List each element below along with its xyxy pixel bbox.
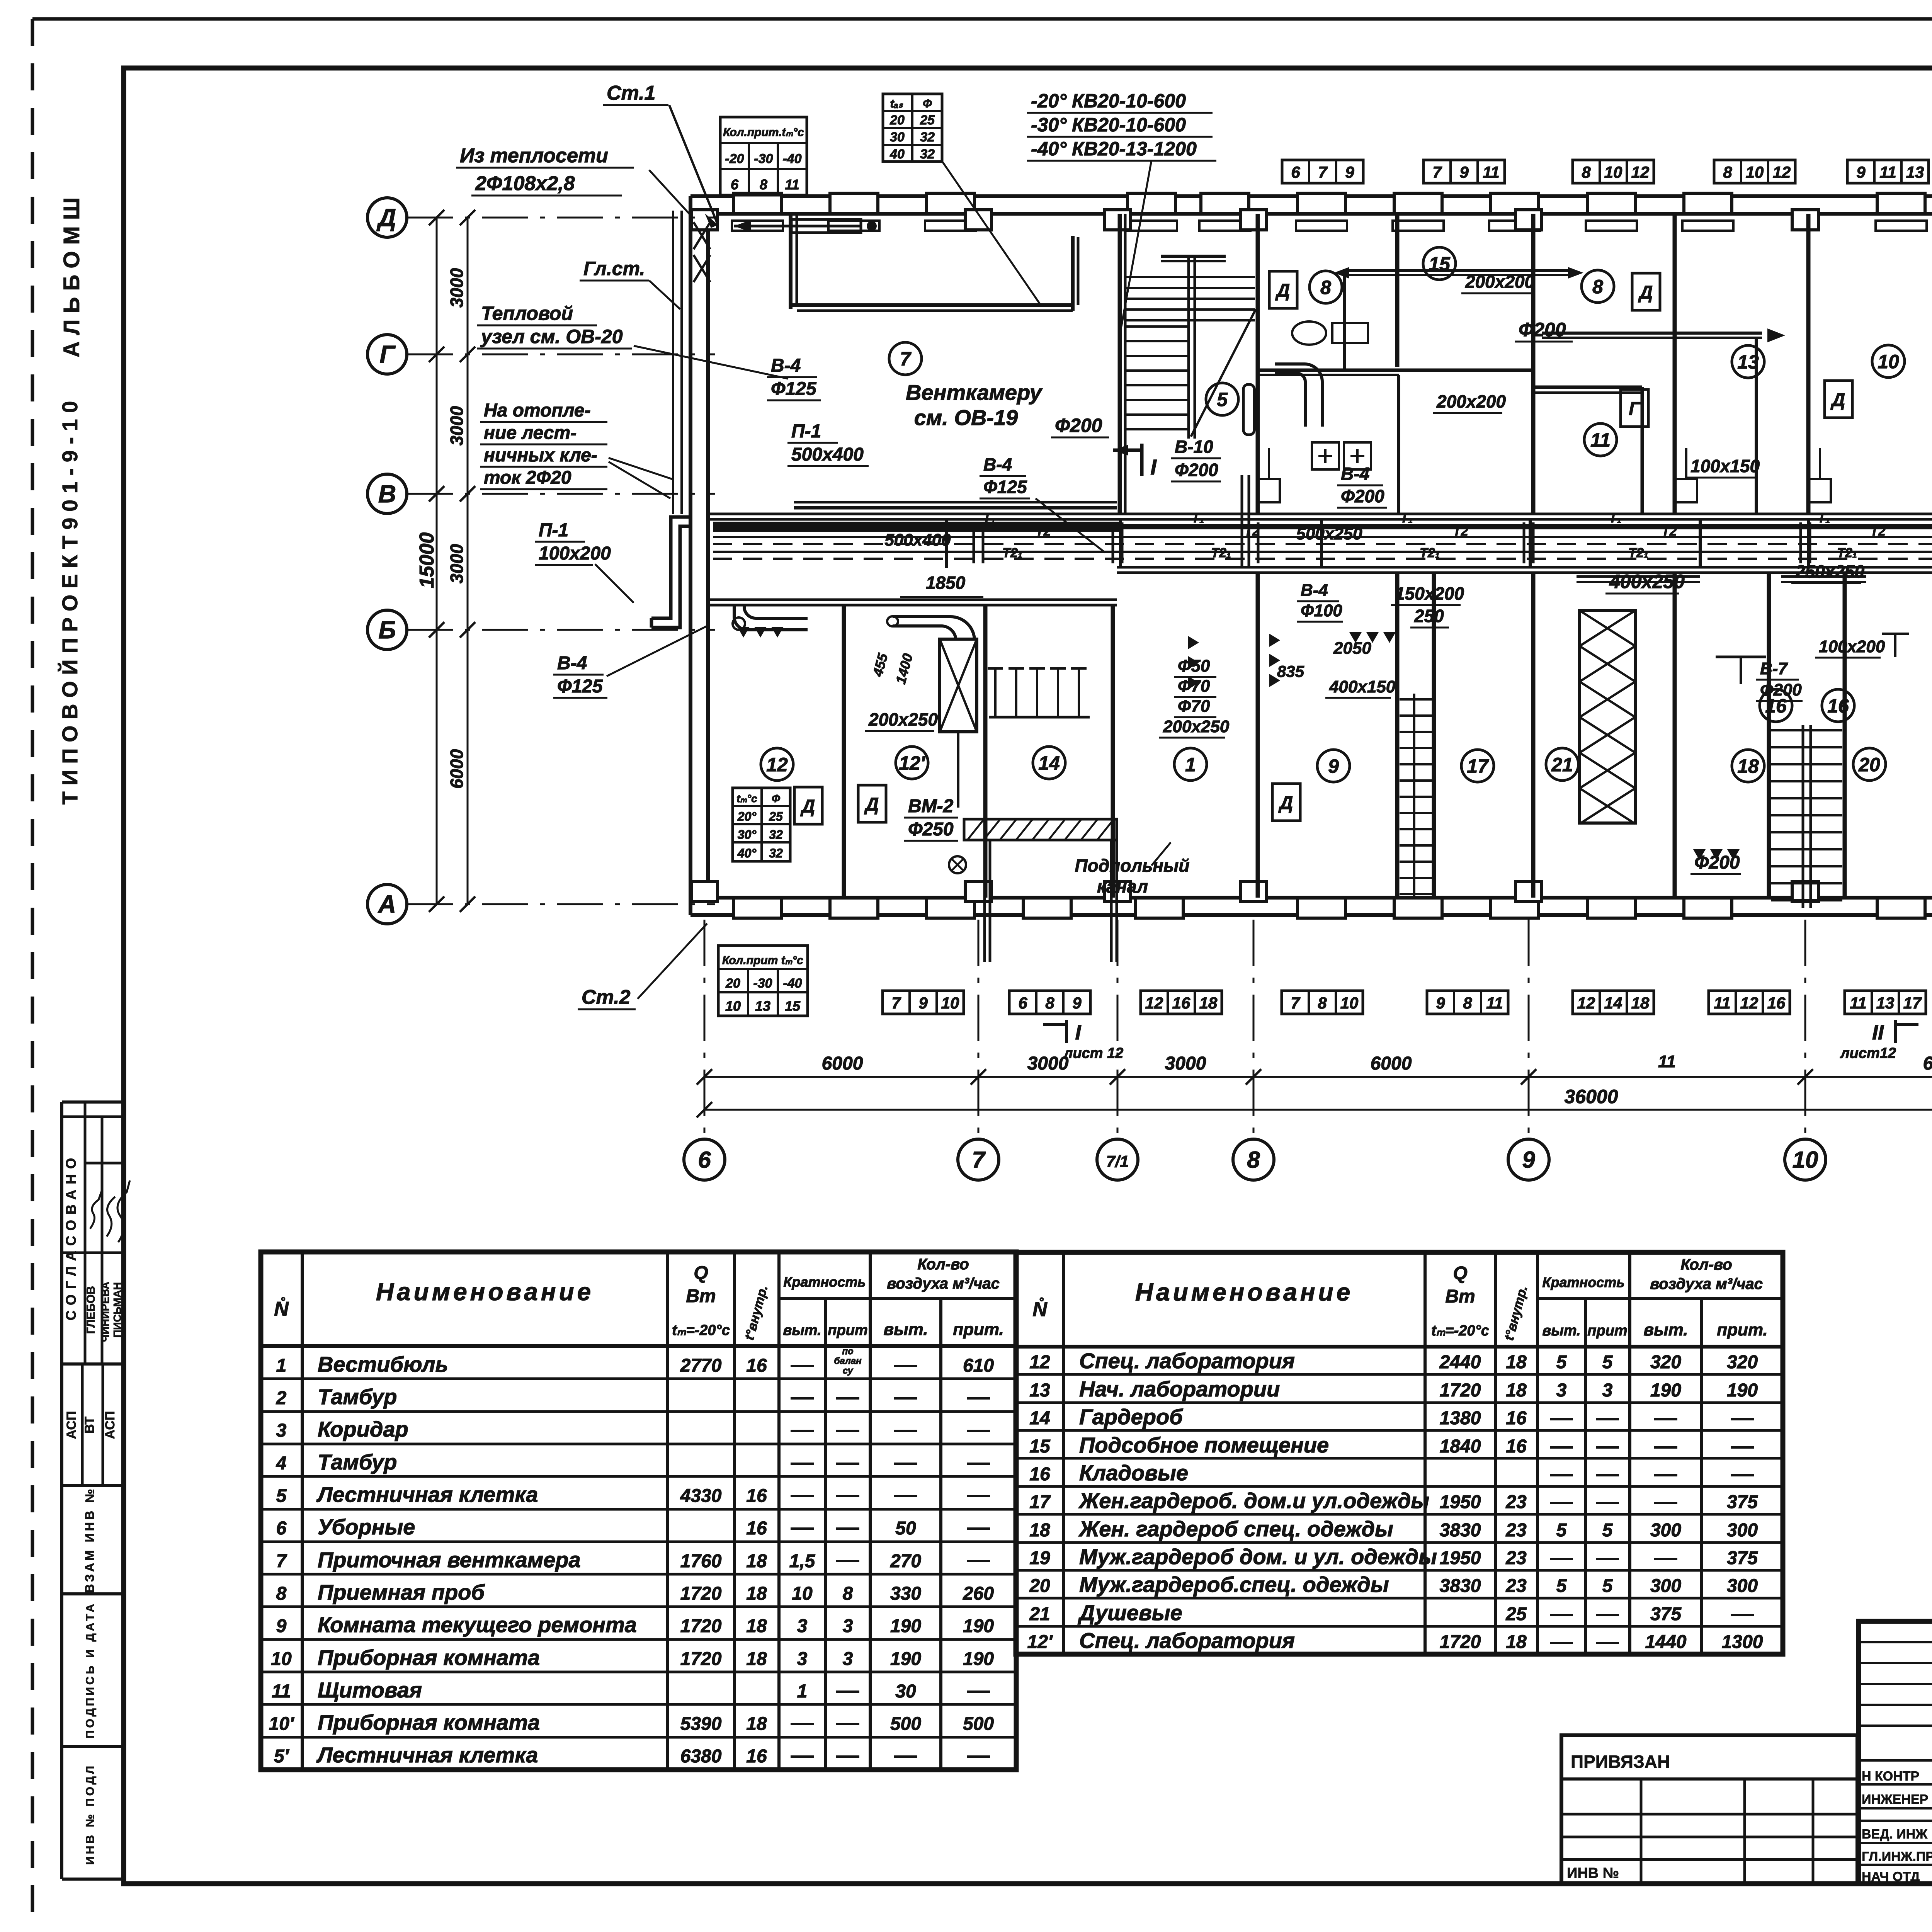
underfloor channel walls: [985, 840, 1117, 962]
svg-text:ВЗАМ ИНВ №: ВЗАМ ИНВ №: [83, 1486, 97, 1593]
svg-text:ПОДПИСЬ И ДАТА: ПОДПИСЬ И ДАТА: [84, 1602, 97, 1738]
svg-text:23: 23: [1505, 1548, 1527, 1568]
section mark I near stair: [1113, 444, 1157, 479]
svg-text:выт.: выт.: [884, 1320, 928, 1339]
svg-text:10′: 10′: [269, 1714, 295, 1734]
svg-text:Ф: Ф: [923, 97, 932, 110]
svg-text:6: 6: [276, 1518, 287, 1539]
svg-text:18: 18: [1506, 1380, 1527, 1401]
underfloor channel hatch: [964, 819, 1117, 840]
right table outer border: [1016, 1252, 1783, 1654]
hanging rails rooms 18/20: [1716, 634, 1932, 684]
label teplovoy uzel: [477, 303, 788, 379]
svg-text:20: 20: [1858, 754, 1880, 776]
svg-text:Т2₁: Т2₁: [1211, 546, 1231, 560]
label St.2 with leader: [578, 923, 707, 1009]
svg-text:1950: 1950: [1440, 1548, 1481, 1568]
svg-text:320: 320: [1650, 1352, 1681, 1372]
svg-text:300: 300: [1650, 1576, 1681, 1596]
WC elbow duct: [1275, 364, 1322, 427]
svg-text:А Л Ь Б О М Ш: А Л Ь Б О М Ш: [59, 197, 84, 357]
svg-text:Т2: Т2: [1870, 524, 1886, 539]
svg-text:13: 13: [1029, 1380, 1050, 1401]
room number circles: [761, 247, 1932, 782]
building exterior walls: [690, 196, 1932, 915]
svg-text:Т И П О В О Й П Р О Е К Т: Т И П О В О Й П Р О Е К Т 9 0 1 - 9 - 1 …: [58, 401, 82, 805]
svg-text:ВТ: ВТ: [82, 1417, 97, 1434]
svg-text:Лестничная клетка: Лестничная клетка: [316, 1482, 538, 1507]
svg-text:узел см. ОВ-20: узел см. ОВ-20: [480, 326, 623, 347]
stairwell lower narrow: [1400, 694, 1432, 898]
corridor lower wall left part: [708, 600, 1117, 605]
svg-text:200х200: 200х200: [1436, 391, 1506, 412]
svg-text:3830: 3830: [1440, 1520, 1481, 1541]
svg-text:Д: Д: [1638, 282, 1653, 303]
svg-text:Ст.1: Ст.1: [607, 82, 655, 104]
svg-text:1: 1: [276, 1355, 287, 1376]
svg-text:Коридар: Коридар: [318, 1417, 408, 1441]
T-labels along mains: [983, 511, 1932, 560]
svg-text:10: 10: [1746, 163, 1764, 181]
svg-text:Т2: Т2: [1453, 524, 1468, 539]
svg-text:3000: 3000: [447, 544, 467, 583]
svg-text:330: 330: [890, 1583, 921, 1604]
mini table B (tvs f) top: [883, 94, 942, 162]
svg-text:8: 8: [1320, 277, 1331, 298]
svg-text:32: 32: [769, 846, 783, 860]
svg-text:су: су: [843, 1366, 854, 1376]
VM-2 f250 label: [904, 796, 958, 841]
svg-text:11: 11: [1714, 994, 1731, 1012]
svg-text:tₘ=-20°с: tₘ=-20°с: [1431, 1323, 1489, 1339]
svg-text:18: 18: [746, 1551, 767, 1571]
svg-text:500х400: 500х400: [884, 531, 951, 549]
svg-text:17: 17: [1903, 994, 1922, 1012]
svg-text:Q: Q: [694, 1263, 708, 1283]
label St.1 with leader: [603, 82, 718, 228]
svg-text:9: 9: [1522, 1147, 1535, 1173]
svg-text:12: 12: [1740, 994, 1759, 1012]
svg-text:Ф250: Ф250: [908, 819, 954, 840]
svg-text:6: 6: [1018, 994, 1027, 1012]
svg-text:по: по: [842, 1346, 853, 1357]
sink fixtures: [1292, 321, 1371, 469]
svg-text:23: 23: [1505, 1520, 1527, 1541]
svg-text:-30: -30: [754, 151, 773, 166]
svg-text:36000: 36000: [1564, 1086, 1618, 1107]
svg-text:ток 2Ф20: ток 2Ф20: [484, 468, 571, 488]
svg-text:Д: Д: [1830, 390, 1845, 410]
svg-text:Спец. лаборатория: Спец. лаборатория: [1079, 1349, 1295, 1373]
svg-text:Щитовая: Щитовая: [318, 1678, 422, 1702]
svg-text:-30° КВ20-10-600: -30° КВ20-10-600: [1031, 114, 1186, 136]
mini table E (tn f) room12: [733, 788, 790, 861]
corridor lower wall right part: [1117, 567, 1932, 573]
svg-text:11: 11: [1658, 1052, 1676, 1071]
bottom dimension line 2 total 36000: [697, 1086, 1932, 1117]
svg-text:-20: -20: [725, 151, 744, 166]
svg-text:tₘ=-20°с: tₘ=-20°с: [672, 1322, 730, 1338]
svg-text:7: 7: [972, 1147, 986, 1173]
svg-text:16: 16: [746, 1518, 767, 1539]
svg-text:12: 12: [1577, 994, 1595, 1012]
sidebar signatures: [90, 1180, 130, 1242]
bottom axis circles: [684, 1139, 1932, 1180]
svg-text:1720: 1720: [680, 1649, 722, 1669]
svg-text:13: 13: [1906, 163, 1924, 181]
wardrobe rack left (X pattern): [1580, 611, 1635, 824]
ventkamera radiator with dot: [734, 219, 877, 233]
label V-4 f200: [1337, 464, 1387, 508]
label V-10 f200: [1171, 437, 1221, 481]
title block left grid: [1859, 1621, 1932, 1884]
svg-text:3000: 3000: [1027, 1053, 1069, 1074]
svg-text:50: 50: [895, 1518, 916, 1539]
svg-text:ГЛ.ИНЖ.ПР: ГЛ.ИНЖ.ПР: [1862, 1849, 1932, 1864]
svg-text:Ф200: Ф200: [1760, 680, 1802, 699]
WC cluster walls rooms 5..15: [1258, 270, 1533, 514]
partition foot risers upper band: [1258, 448, 1932, 502]
svg-text:Душевые: Душевые: [1078, 1600, 1182, 1625]
svg-text:Б: Б: [378, 616, 396, 644]
svg-text:Кратность: Кратность: [783, 1274, 866, 1290]
svg-text:16: 16: [1767, 994, 1786, 1012]
svg-text:1720: 1720: [680, 1616, 722, 1636]
svg-text:2Ф108х2,8: 2Ф108х2,8: [475, 172, 575, 195]
svg-text:14: 14: [1038, 752, 1060, 774]
svg-text:30: 30: [890, 130, 905, 145]
svg-text:12: 12: [1145, 994, 1163, 1012]
svg-text:Вт: Вт: [1445, 1286, 1475, 1307]
svg-text:9: 9: [1856, 163, 1866, 181]
right table header text: [1032, 1256, 1767, 1342]
svg-text:190: 190: [963, 1616, 994, 1636]
svg-text:12: 12: [766, 754, 788, 776]
svg-text:3: 3: [1556, 1380, 1567, 1401]
svg-text:Ф100: Ф100: [1301, 601, 1342, 620]
svg-text:Ст.2: Ст.2: [582, 986, 631, 1009]
svg-text:25: 25: [1505, 1604, 1527, 1624]
title block frame: [1859, 1621, 1932, 1884]
svg-text:5: 5: [1602, 1576, 1613, 1596]
svg-text:1: 1: [1185, 754, 1196, 776]
svg-text:9: 9: [1345, 163, 1354, 181]
svg-text:см. ОВ-19: см. ОВ-19: [914, 405, 1018, 430]
svg-text:лист 12: лист 12: [1063, 1045, 1124, 1061]
svg-text:2770: 2770: [680, 1355, 722, 1376]
svg-text:32: 32: [769, 828, 783, 842]
svg-text:18: 18: [1506, 1632, 1527, 1652]
corridor heating mains T1 T2: [713, 527, 1932, 559]
right table rows: [1027, 1349, 1763, 1653]
svg-text:610: 610: [963, 1355, 994, 1376]
svg-text:260: 260: [963, 1583, 994, 1604]
svg-text:20: 20: [889, 113, 905, 128]
svg-text:11: 11: [1486, 994, 1503, 1012]
room14 garment hangers: [988, 668, 1090, 717]
svg-text:1760: 1760: [680, 1551, 722, 1571]
svg-text:400х150: 400х150: [1329, 677, 1396, 696]
room7 text ventkamera: [906, 380, 1043, 430]
f50 f70 stack: [1159, 656, 1230, 738]
svg-text:ВЕД. ИНЖ: ВЕД. ИНЖ: [1862, 1827, 1927, 1842]
bottom dimension line 1: [697, 1052, 1932, 1085]
svg-text:8: 8: [843, 1583, 853, 1604]
svg-text:Т2₁: Т2₁: [1002, 546, 1022, 560]
svg-text:Спец. лаборатория: Спец. лаборатория: [1079, 1628, 1295, 1653]
svg-text:200х250: 200х250: [1163, 717, 1230, 736]
svg-text:Ф: Ф: [772, 793, 780, 804]
svg-text:18: 18: [746, 1714, 767, 1734]
svg-text:3: 3: [276, 1420, 287, 1441]
svg-text:10: 10: [1340, 994, 1359, 1012]
label V-4 f125 mid: [980, 454, 1105, 553]
svg-text:Т₁: Т₁: [1400, 511, 1413, 526]
title block signature names: [1862, 1767, 1932, 1884]
sidebar album text: [58, 197, 84, 805]
svg-text:13: 13: [755, 998, 770, 1014]
svg-text:Ф200: Ф200: [1519, 319, 1566, 340]
svg-text:500х250: 500х250: [1296, 524, 1362, 543]
svg-text:-40: -40: [783, 976, 802, 991]
svg-text:10: 10: [1878, 351, 1899, 372]
svg-text:Тамбур: Тамбур: [318, 1384, 397, 1409]
svg-text:17: 17: [1467, 755, 1489, 777]
wall pilasters at axes: [691, 210, 1932, 901]
sidebar rotated captions: [63, 1153, 123, 1865]
svg-text:18: 18: [1737, 755, 1759, 777]
interior partitions lower band: [844, 573, 1932, 898]
svg-text:Жен. гардероб спец. одежды: Жен. гардероб спец. одежды: [1078, 1517, 1393, 1541]
svg-text:1,5: 1,5: [789, 1551, 816, 1571]
svg-text:250: 250: [1414, 606, 1444, 626]
svg-text:выт.: выт.: [1542, 1323, 1580, 1339]
svg-text:100х200: 100х200: [539, 543, 611, 564]
svg-text:20°: 20°: [737, 810, 757, 823]
svg-text:Приборная комната: Приборная комната: [318, 1710, 540, 1735]
svg-text:11: 11: [1850, 994, 1867, 1012]
svg-text:200х200: 200х200: [1465, 272, 1534, 292]
svg-text:2440: 2440: [1439, 1352, 1481, 1372]
svg-text:Уборные: Уборные: [318, 1515, 415, 1539]
svg-text:8: 8: [1723, 163, 1732, 181]
svg-text:1840: 1840: [1440, 1436, 1481, 1457]
svg-text:18: 18: [1631, 994, 1650, 1012]
svg-text:Т2₁: Т2₁: [1837, 546, 1857, 560]
svg-text:Тепловой: Тепловой: [481, 303, 573, 324]
svg-text:7: 7: [891, 994, 901, 1012]
svg-text:23: 23: [1505, 1492, 1527, 1512]
svg-text:16: 16: [1506, 1436, 1527, 1457]
svg-text:Д: Д: [864, 794, 879, 815]
svg-text:6000: 6000: [447, 749, 467, 789]
svg-text:Кол.прит.tₘ°с: Кол.прит.tₘ°с: [723, 126, 804, 139]
svg-text:190: 190: [963, 1649, 994, 1669]
svg-text:В-4: В-4: [1341, 464, 1369, 484]
svg-text:20: 20: [1029, 1576, 1050, 1596]
svg-text:3: 3: [843, 1649, 853, 1669]
svg-text:выт.: выт.: [1644, 1320, 1688, 1339]
svg-text:выт.: выт.: [783, 1322, 821, 1338]
svg-text:Ф200: Ф200: [1175, 460, 1218, 480]
svg-text:9: 9: [1436, 994, 1445, 1012]
svg-text:Д: Д: [1278, 793, 1293, 813]
svg-text:Нач. лаборатории: Нач. лаборатории: [1079, 1377, 1280, 1401]
svg-text:П-1: П-1: [539, 520, 568, 541]
svg-text:30: 30: [895, 1681, 916, 1702]
svg-text:Ф70: Ф70: [1178, 677, 1210, 696]
svg-text:8: 8: [276, 1583, 287, 1604]
svg-text:-40° КВ20-13-1200: -40° КВ20-13-1200: [1031, 138, 1197, 160]
mini table C (kol prit) bottom: [718, 946, 808, 1016]
svg-text:Лестничная клетка: Лестничная клетка: [316, 1743, 538, 1767]
svg-text:16: 16: [1506, 1408, 1527, 1429]
svg-text:4330: 4330: [680, 1486, 722, 1506]
svg-text:200х250: 200х250: [868, 709, 938, 730]
svg-text:18: 18: [746, 1616, 767, 1636]
svg-text:Т₁: Т₁: [1818, 511, 1830, 526]
svg-text:320: 320: [1727, 1352, 1758, 1372]
svg-text:1720: 1720: [1440, 1632, 1481, 1652]
room12 inlet duct elbow: [733, 605, 808, 630]
label: iz teploseti: [456, 145, 692, 216]
svg-text:3: 3: [1602, 1380, 1613, 1401]
svg-text:15000: 15000: [416, 532, 438, 588]
vent triangles columns: [1188, 634, 1280, 689]
svg-text:3: 3: [797, 1616, 808, 1636]
mini table A (kol prit tn) top: [720, 117, 807, 195]
svg-text:-20° КВ20-10-600: -20° КВ20-10-600: [1031, 90, 1186, 112]
svg-text:10: 10: [725, 998, 741, 1014]
ventkamera inner walls: [791, 214, 1078, 311]
svg-text:250х250: 250х250: [1795, 561, 1864, 582]
svg-text:25: 25: [920, 113, 935, 128]
svg-text:5′: 5′: [274, 1746, 290, 1767]
duct f200 run rooms 8-11: [1542, 328, 1785, 514]
svg-text:100х150: 100х150: [1690, 456, 1760, 476]
svg-text:В: В: [378, 480, 396, 508]
svg-text:7: 7: [1432, 163, 1442, 181]
svg-text:10: 10: [941, 994, 959, 1012]
svg-text:11: 11: [1879, 163, 1896, 181]
svg-text:ИНЖЕНЕР: ИНЖЕНЕР: [1862, 1792, 1928, 1807]
svg-text:8: 8: [1592, 276, 1603, 298]
svg-text:400х250: 400х250: [1609, 571, 1685, 592]
svg-text:190: 190: [1650, 1380, 1681, 1401]
svg-text:7: 7: [1291, 994, 1300, 1012]
svg-text:500: 500: [890, 1714, 921, 1734]
svg-text:Кратность: Кратность: [1542, 1274, 1624, 1290]
left table outer border: [261, 1252, 1016, 1770]
svg-text:Н КОНТР: Н КОНТР: [1862, 1769, 1919, 1784]
svg-text:16: 16: [746, 1355, 767, 1376]
svg-text:ВМ-2: ВМ-2: [908, 796, 954, 816]
svg-text:Вестибюль: Вестибюль: [318, 1352, 448, 1376]
svg-text:прит: прит: [1587, 1323, 1627, 1339]
svg-text:В-4: В-4: [983, 454, 1012, 474]
svg-text:500: 500: [963, 1714, 994, 1734]
svg-text:Вт: Вт: [686, 1286, 716, 1306]
svg-text:ИНВ № ПОДЛ: ИНВ № ПОДЛ: [84, 1764, 97, 1865]
svg-text:7/1: 7/1: [1106, 1152, 1129, 1170]
svg-text:3: 3: [843, 1616, 853, 1636]
svg-text:100х200: 100х200: [1819, 637, 1885, 656]
svg-text:ПРИВЯЗАН: ПРИВЯЗАН: [1571, 1752, 1670, 1772]
V-10 riser capsule: [1242, 384, 1254, 568]
svg-text:В-7: В-7: [1760, 659, 1788, 678]
svg-text:ЧИНИРЕВА: ЧИНИРЕВА: [99, 1282, 111, 1342]
svg-text:Г: Г: [379, 340, 396, 368]
svg-text:23: 23: [1505, 1576, 1527, 1596]
svg-text:10: 10: [271, 1649, 292, 1669]
radiators under top windows: [732, 221, 1932, 231]
svg-text:балан: балан: [834, 1356, 862, 1366]
svg-text:ничных кле-: ничных кле-: [484, 445, 597, 466]
right table grid: [1016, 1252, 1783, 1654]
stairwell upper left: [1125, 214, 1256, 514]
svg-text:17: 17: [1029, 1492, 1051, 1512]
svg-text:Гардероб: Гардероб: [1079, 1405, 1183, 1429]
windows on top wall: [733, 193, 1932, 213]
section mark II: [1840, 1020, 1918, 1061]
KV callout top: [943, 90, 1216, 327]
svg-text:4: 4: [276, 1453, 287, 1474]
svg-text:9: 9: [1072, 994, 1082, 1012]
svg-text:1380: 1380: [1440, 1408, 1481, 1429]
svg-text:N̊: N̊: [274, 1297, 289, 1320]
svg-text:Наименование: Наименование: [376, 1278, 594, 1306]
svg-text:Кладовые: Кладовые: [1079, 1461, 1188, 1485]
svg-text:воздуха м³/час: воздуха м³/час: [887, 1275, 1000, 1292]
svg-text:12′: 12′: [899, 752, 926, 774]
corridor upper wall: [708, 514, 1932, 519]
svg-text:В-4: В-4: [557, 653, 587, 673]
svg-text:АСП: АСП: [64, 1411, 79, 1439]
svg-text:воздуха м³/час: воздуха м³/час: [1650, 1276, 1763, 1293]
svg-text:14: 14: [1604, 994, 1622, 1012]
svg-text:1850: 1850: [926, 573, 966, 593]
svg-text:11: 11: [272, 1681, 291, 1702]
svg-text:18: 18: [746, 1583, 767, 1604]
svg-text:Т₁: Т₁: [1192, 511, 1204, 526]
VM-2 fan symbol: [949, 856, 966, 873]
svg-text:Кол-во: Кол-во: [917, 1256, 969, 1273]
left axis lines: [407, 218, 715, 904]
svg-text:3000: 3000: [1165, 1053, 1206, 1074]
svg-text:21: 21: [1551, 754, 1573, 776]
label na otoplenie: [480, 400, 672, 498]
svg-text:1440: 1440: [1645, 1632, 1687, 1652]
left axis circles: [367, 198, 407, 924]
svg-text:30°: 30°: [738, 828, 757, 842]
svg-text:Д: Д: [1275, 281, 1290, 301]
svg-text:Тамбур: Тамбур: [318, 1450, 397, 1474]
svg-text:300: 300: [1650, 1520, 1681, 1541]
svg-text:-40: -40: [782, 151, 801, 166]
vent triangles group: [737, 627, 1932, 882]
svg-text:6: 6: [698, 1147, 711, 1173]
svg-text:Ф125: Ф125: [983, 477, 1027, 497]
svg-text:14: 14: [1029, 1408, 1050, 1429]
svg-text:8: 8: [1582, 163, 1591, 181]
svg-text:5390: 5390: [680, 1714, 722, 1734]
svg-text:1300: 1300: [1722, 1632, 1763, 1652]
svg-text:9: 9: [276, 1616, 287, 1636]
svg-text:18: 18: [1199, 994, 1218, 1012]
svg-text:прит: прит: [828, 1322, 867, 1338]
svg-text:Муж.гардероб дом. и ул. одежды: Муж.гардероб дом. и ул. одежды: [1079, 1544, 1437, 1569]
podpolny kanal: [1075, 842, 1190, 896]
